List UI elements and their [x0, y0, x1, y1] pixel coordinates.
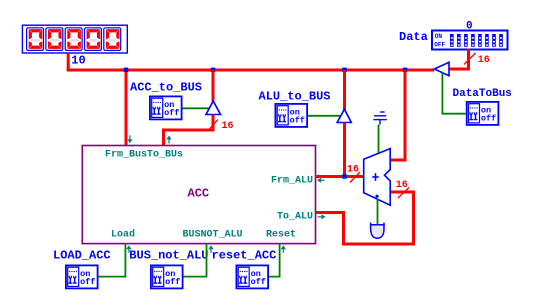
svg-text:OFF: OFF	[434, 41, 445, 48]
svg-text:10: 10	[71, 54, 85, 68]
bus width slash 16	[208, 120, 218, 131]
svg-text:DataToBus: DataToBus	[453, 88, 512, 100]
wire Frm_ALU	[315, 175, 364, 178]
svg-text:16: 16	[222, 121, 234, 132]
wire switch to buffer (green)	[308, 115, 341, 117]
ALU plus label	[372, 173, 378, 181]
switch reset_ACC	[236, 265, 268, 288]
wire buffer B1 to ACC	[164, 115, 214, 147]
svg-text:Frm_ALU: Frm_ALU	[271, 176, 313, 187]
wire bus to ALU upper input	[390, 70, 405, 160]
switch DataToBus	[467, 102, 499, 125]
wire display to bus	[67, 53, 70, 70]
bus wire	[67, 69, 435, 72]
node junction 5	[342, 174, 346, 178]
pin arrow right (To_ALU)	[318, 214, 326, 219]
svg-text:ACC: ACC	[188, 187, 210, 201]
carry-out tag (dome)	[371, 225, 384, 238]
svg-text:ALU_to_BUS: ALU_to_BUS	[259, 90, 331, 104]
svg-text:Data: Data	[399, 30, 428, 44]
pin arrow up (Load)	[126, 245, 131, 253]
node junction 1	[124, 68, 128, 72]
bus width slash 16	[398, 188, 409, 199]
node junction 3	[342, 68, 346, 72]
wire bus to buffer B1	[212, 70, 215, 102]
wire DIP to buffer B3	[449, 49, 469, 69]
svg-text:BUSNOT_ALU: BUSNOT_ALU	[183, 230, 243, 241]
node junction 4	[403, 68, 407, 72]
tri-state buffer B3	[434, 62, 449, 75]
svg-text:16: 16	[396, 180, 408, 191]
svg-text:Load: Load	[111, 229, 135, 241]
ground symbol	[373, 112, 386, 125]
wire ALU output loop to To_ALU	[315, 192, 414, 244]
DIP switch input device	[432, 31, 508, 50]
pin arrow up (Reset)	[281, 245, 286, 253]
wire ground to ALU (green)	[378, 125, 380, 153]
ALU U2	[364, 149, 391, 206]
wire BUS_not_ALU to ACC (green)	[184, 243, 207, 277]
svg-text:ON: ON	[435, 33, 443, 40]
switch ACC_to_BUS	[150, 96, 182, 119]
node junction 2	[211, 68, 215, 72]
tri-state buffer B1	[206, 101, 221, 115]
switch LOAD_ACC	[66, 265, 98, 288]
wire bus to ACC Frm_BusTo_BUs	[125, 70, 128, 146]
wire buffer B2 to Frm_ALU node	[343, 123, 346, 177]
pin arrow up (BUSNOT_ALU)	[208, 245, 213, 253]
svg-text:Reset: Reset	[266, 230, 296, 241]
pin arrow left (Frm_ALU)	[317, 178, 325, 183]
7-segment display DISP1	[22, 25, 127, 53]
svg-text:reset_ACC: reset_ACC	[212, 249, 277, 263]
wire switch to buffer (green)	[183, 107, 210, 109]
ACC macro box	[82, 146, 315, 244]
switch BUS_not_ALU	[151, 265, 183, 288]
svg-text:ACC_to_BUS: ACC_to_BUS	[130, 81, 202, 95]
switch ALU_to_BUS	[275, 104, 307, 127]
svg-text:16: 16	[478, 55, 490, 66]
wire switch to buffer B3 (green)	[442, 73, 465, 114]
wire LOAD_ACC to ACC (green)	[99, 243, 126, 277]
ALU carry dot	[375, 195, 378, 198]
svg-text:LOAD_ACC: LOAD_ACC	[53, 249, 111, 263]
wire reset_ACC to ACC (green)	[269, 243, 280, 277]
svg-text:Frm_BusTo_BUs: Frm_BusTo_BUs	[105, 150, 183, 161]
bus width slash 16	[464, 53, 476, 65]
svg-text:BUS_not_ALU: BUS_not_ALU	[129, 249, 208, 263]
tri-state buffer B2	[337, 109, 351, 122]
wire bus to buffer B2	[343, 70, 346, 110]
svg-text:16: 16	[347, 164, 359, 175]
wire ALU to carry-out tag (green)	[377, 199, 379, 225]
svg-text:To_ALU: To_ALU	[277, 212, 313, 223]
bus width slash 16	[350, 172, 360, 183]
pin arrow down (Frm_BusTo_BUs)	[127, 135, 132, 143]
pin arrow up (to buffer B1)	[166, 136, 171, 144]
